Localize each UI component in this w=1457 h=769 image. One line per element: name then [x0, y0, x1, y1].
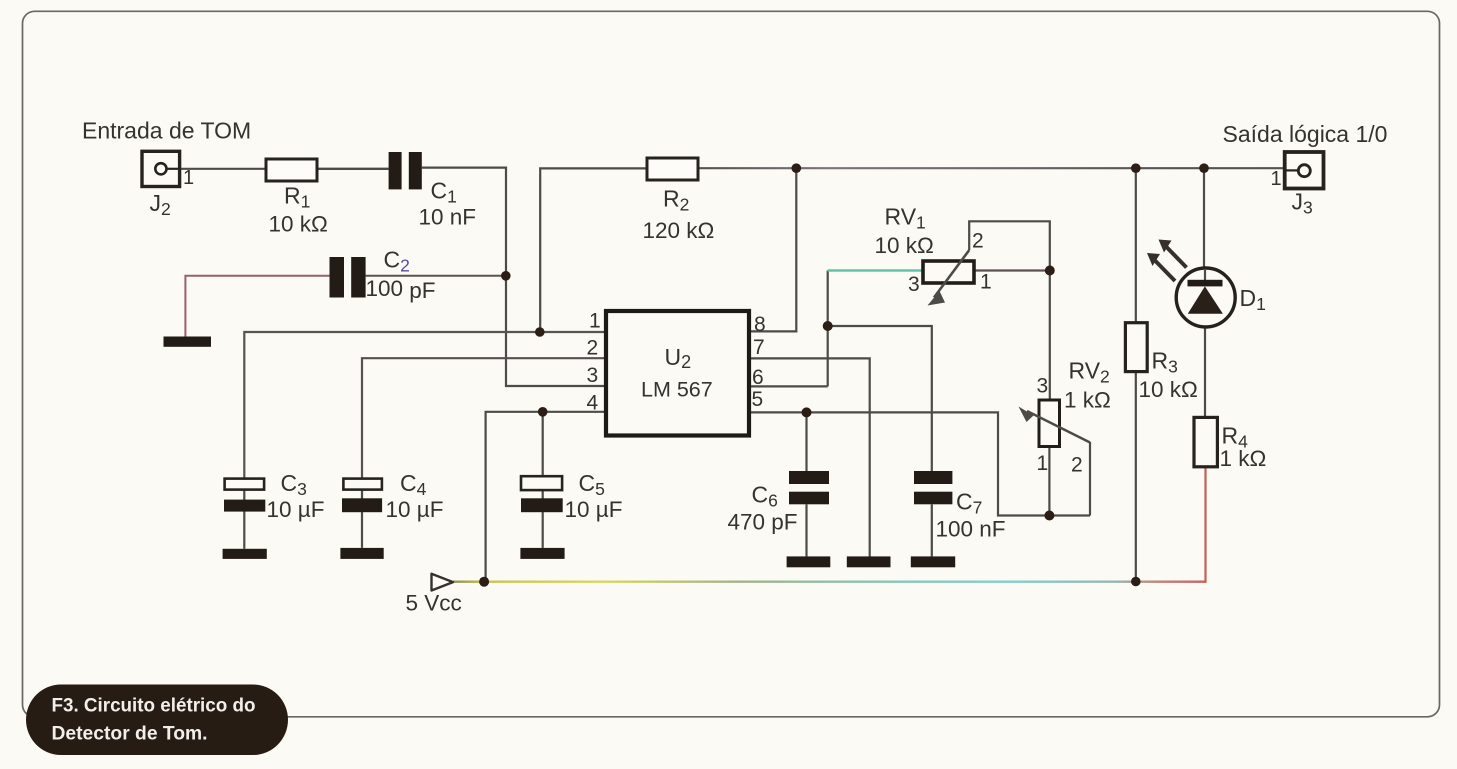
wire pin 2 to C4 corner [362, 358, 606, 479]
svg-text:10 µF: 10 µF [267, 497, 325, 522]
svg-text:C3: C3 [281, 470, 307, 499]
svg-text:120 kΩ: 120 kΩ [643, 218, 715, 243]
ground for C5 [520, 548, 564, 559]
svg-text:1: 1 [589, 310, 601, 333]
wire pin 8 riser [749, 168, 796, 331]
wire RV1 pin 3 teal [828, 269, 923, 272]
svg-text:10 kΩ: 10 kΩ [1139, 377, 1198, 402]
capacitor C3 [224, 479, 265, 549]
ground for pin 7 [847, 556, 891, 567]
svg-text:1: 1 [1037, 452, 1049, 475]
svg-text:3: 3 [587, 364, 599, 387]
resistor R4 [1194, 417, 1217, 466]
IC U2 LM567 [606, 311, 749, 436]
svg-text:R2: R2 [663, 186, 689, 215]
wire R3 top lead [1135, 168, 1137, 323]
wire D1 to R4 [1204, 314, 1206, 417]
wire C2 left to ground [185, 276, 329, 337]
svg-text:2: 2 [1071, 454, 1083, 477]
svg-text:F3. Circuito elétrico do: F3. Circuito elétrico do [52, 695, 256, 717]
svg-text:Detector de Tom.: Detector de Tom. [52, 723, 208, 745]
svg-text:470 pF: 470 pF [728, 510, 798, 535]
svg-text:R1: R1 [284, 183, 310, 212]
jack J2 [142, 151, 180, 186]
wire pin 1 to C3 corner [244, 332, 606, 479]
5V supply rail [453, 581, 1207, 583]
svg-text:1: 1 [980, 271, 992, 294]
wire pin 7 to ground [749, 358, 870, 556]
svg-text:4: 4 [587, 392, 599, 415]
svg-text:C5: C5 [579, 470, 605, 499]
resistor R3 [1125, 323, 1147, 372]
wire RV1 pin 2 loop [969, 221, 1050, 270]
wire C1 to pin 3 node [422, 168, 606, 386]
ground for C6 [787, 556, 831, 567]
capacitor C5 [521, 476, 563, 548]
figure caption badge F3 [26, 685, 288, 756]
LED D1 [1147, 240, 1235, 328]
resistor R2 [647, 158, 698, 180]
svg-text:C1: C1 [431, 178, 457, 207]
svg-text:D1: D1 [1240, 285, 1266, 314]
wire pin4 node to C5 [542, 412, 544, 477]
wire C2 right [366, 275, 506, 277]
svg-text:J3: J3 [1292, 189, 1313, 218]
capacitor C7 [914, 471, 952, 556]
svg-text:J2: J2 [150, 190, 171, 219]
svg-text:1 kΩ: 1 kΩ [1220, 446, 1267, 471]
wire J2 to R1 [167, 168, 266, 170]
wire pin 6 riser [749, 385, 828, 387]
svg-text:10 µF: 10 µF [565, 497, 623, 522]
wire R3 bottom lead [1135, 372, 1137, 582]
top output rail R2 to J3 [698, 167, 1285, 169]
svg-text:10 kΩ: 10 kΩ [875, 233, 934, 258]
svg-text:7: 7 [753, 336, 765, 359]
svg-text:5: 5 [752, 388, 764, 411]
wire node B to RV2 pin 3 [1049, 271, 1051, 401]
wire pin 4 to C5 and 5V corner [486, 412, 606, 582]
svg-text:100 nF: 100 nF [936, 517, 1006, 542]
capacitor C4 [342, 479, 382, 548]
svg-text:C4: C4 [400, 470, 427, 499]
svg-text:Saída lógica 1/0: Saída lógica 1/0 [1223, 121, 1388, 147]
capacitor C2 [330, 257, 366, 298]
svg-text:2: 2 [972, 230, 984, 253]
wire pin5 node to C6 [805, 412, 807, 471]
svg-text:8: 8 [754, 313, 766, 336]
svg-text:RV1: RV1 [885, 204, 926, 233]
wire R4 bottom to 5V rail [1204, 467, 1206, 583]
svg-text:C6: C6 [752, 482, 778, 511]
wire D1 top lead [1203, 168, 1205, 280]
svg-text:1 kΩ: 1 kΩ [1064, 388, 1111, 413]
wire R2 left to pin 1 [540, 168, 647, 332]
svg-text:1: 1 [183, 167, 194, 189]
svg-text:C2: C2 [384, 247, 410, 276]
svg-text:Entrada de TOM: Entrada de TOM [82, 118, 251, 144]
potentiometer RV2 [1019, 400, 1091, 447]
svg-text:C7: C7 [956, 489, 982, 518]
wire R1 to C1 [317, 168, 389, 170]
svg-text:LM 567: LM 567 [641, 378, 713, 402]
svg-text:100 pF: 100 pF [366, 276, 436, 303]
ground for C3 [223, 549, 267, 559]
svg-text:3: 3 [908, 273, 920, 296]
svg-text:R3: R3 [1152, 348, 1178, 377]
wire pin 5 to RV2 bottom [749, 412, 1090, 515]
svg-text:1: 1 [1271, 168, 1282, 190]
wire RV2 pin 2 drop [1089, 442, 1091, 516]
wire RV2 pin 1 down [1048, 447, 1050, 516]
svg-text:5 Vcc: 5 Vcc [406, 591, 462, 616]
ground for C4 [340, 548, 383, 559]
5 Vcc supply arrow [432, 574, 454, 591]
svg-text:10 µF: 10 µF [386, 497, 444, 522]
potentiometer RV1 [923, 250, 974, 305]
wire node A riser to RV1 pin3 level [827, 271, 829, 387]
resistor R1 [266, 159, 317, 181]
ground for C2 [164, 337, 212, 347]
capacitor C6 [789, 471, 829, 556]
svg-text:RV2: RV2 [1069, 358, 1110, 387]
svg-text:6: 6 [752, 366, 764, 389]
svg-text:10 kΩ: 10 kΩ [269, 212, 328, 237]
ground for C7 [911, 556, 955, 567]
svg-text:2: 2 [587, 337, 599, 360]
capacitor C1 [389, 152, 422, 189]
wire node A to C7 [828, 326, 932, 471]
svg-text:10 nF: 10 nF [419, 205, 477, 230]
svg-text:3: 3 [1037, 375, 1049, 398]
wire RV1 pin 1 to node B [974, 269, 1050, 271]
jack J3 [1285, 152, 1324, 189]
